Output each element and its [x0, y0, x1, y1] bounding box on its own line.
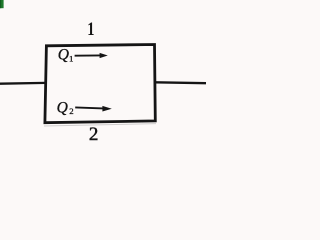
- svg-text:1: 1: [69, 54, 73, 64]
- svg-text:2: 2: [69, 106, 73, 116]
- svg-text:2: 2: [89, 124, 99, 145]
- svg-text:Q: Q: [58, 46, 69, 63]
- svg-text:Q: Q: [57, 99, 68, 116]
- svg-text:1: 1: [87, 18, 94, 39]
